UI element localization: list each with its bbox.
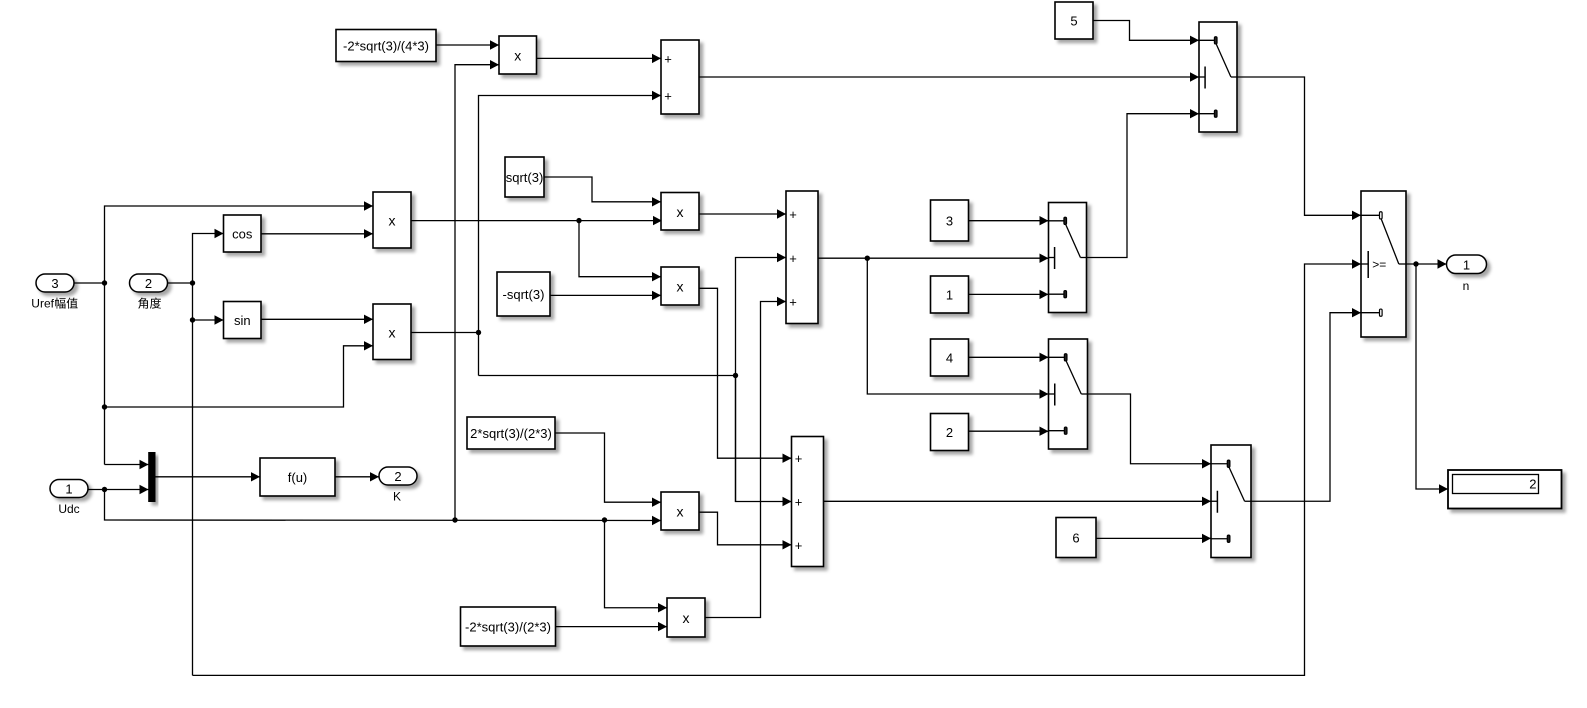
svg-text:+: + (789, 207, 797, 222)
svg-text:Udc: Udc (58, 502, 79, 516)
wire sum U10 output to switch U15 control (818, 254, 1049, 263)
svg-text:1: 1 (946, 288, 953, 303)
svg-text:2*sqrt(3)/(2*3): 2*sqrt(3)/(2*3) (470, 426, 552, 441)
product U8 (667, 598, 705, 637)
wire Udc branch down to product U8 input1 (605, 520, 668, 612)
constant C2 sqrt(3) (505, 157, 544, 197)
svg-text:5: 5 (1070, 14, 1077, 29)
svg-text:+: + (789, 251, 797, 266)
wire cos output to product U1 input2 (261, 229, 373, 238)
svg-text:+: + (795, 495, 803, 510)
product U3 (499, 36, 537, 74)
svg-text:x: x (683, 610, 690, 626)
svg-text:>=: >= (1372, 258, 1386, 272)
wire Uref branch to product U2 input2 (105, 341, 374, 407)
wire constant C2 sqrt3 to product U4 input1 (544, 177, 661, 207)
wire constant C9 value4 to switch U16 input1 (969, 353, 1049, 362)
input port 3 Uref (36, 274, 74, 292)
svg-text:2: 2 (1529, 477, 1536, 492)
input port 2 angle (130, 274, 168, 292)
constant C8 value 5 (1055, 2, 1093, 39)
wire angle bottom run to switch U13 control input (193, 259, 1362, 675)
wire branch to display U18 (1416, 264, 1448, 494)
wire B net across to junction (479, 375, 736, 377)
svg-text:3: 3 (946, 214, 953, 229)
display U18 (1448, 470, 1562, 509)
svg-text:+: + (664, 51, 672, 66)
svg-text:4: 4 (946, 351, 953, 366)
wire product U4 output to sum U10 input1 (699, 209, 786, 218)
wire constant C1 to product U3 input1 (436, 40, 499, 49)
node Udc junction C (452, 517, 457, 522)
constant C5 -2*sqrt(3)/(2*3) (461, 607, 556, 646)
svg-text:2: 2 (394, 469, 401, 484)
constant C6 value 3 (931, 200, 969, 241)
wire sin output to product U2 input1 (261, 315, 373, 324)
svg-text:f(u): f(u) (288, 470, 308, 485)
wire branch of U1 output to product U6 input1 (579, 221, 661, 282)
constant C1 -2*sqrt(3)/(4*3) (336, 30, 436, 62)
product U2 (373, 304, 411, 360)
wire switch U13 output to port n (1406, 259, 1447, 268)
wire sum U11 output to switch U17 control (824, 497, 1212, 506)
svg-text:3: 3 (51, 276, 58, 291)
svg-text:sqrt(3): sqrt(3) (506, 170, 544, 185)
wire mux output to Fcn U5 (155, 472, 260, 481)
wire product U2 output to junction (411, 332, 479, 334)
svg-text:Uref: Uref (31, 297, 54, 311)
svg-text:2: 2 (946, 425, 953, 440)
node sum U10 output junction (865, 256, 870, 261)
svg-text:x: x (389, 324, 396, 340)
wire product U7 output to sum U11 input3 (699, 512, 792, 549)
wire constant C4 to product U7 input1 (555, 433, 661, 507)
node Uref junction B (102, 404, 107, 409)
node B junction A (476, 330, 481, 335)
svg-text:-2*sqrt(3)/(4*3): -2*sqrt(3)/(4*3) (343, 39, 429, 54)
wire constant C7 value1 to switch U15 input3 (969, 290, 1049, 299)
wire sum U9 output to switch U14 input2 (699, 72, 1199, 81)
switch U13 final (1361, 191, 1406, 337)
wire constant C10 value2 to switch U16 input3 (969, 427, 1049, 436)
wire Udc branch run (105, 490, 662, 526)
label Uref幅值 (31, 297, 77, 311)
wire constant C11 value6 to switch U17 input3 (1096, 534, 1211, 543)
svg-text:K: K (393, 490, 401, 504)
product U7 (661, 492, 699, 530)
constant C9 value 4 (931, 339, 969, 376)
node U1 output junction (576, 218, 581, 223)
wire product U6 output to sum U11 input1 (699, 288, 792, 463)
wire Udc input to mux input2 (88, 485, 149, 494)
constant C10 value 2 (931, 414, 969, 451)
svg-text:cos: cos (232, 227, 253, 242)
wire angle net to cos input (193, 229, 224, 676)
output port 2 K (379, 467, 417, 504)
mux (148, 452, 155, 502)
node Uref junction A (102, 280, 107, 285)
output port 1 n (1447, 255, 1487, 293)
wire Udc branch up to product U3 input2 (455, 60, 499, 520)
wire Uref input to junction (74, 282, 105, 284)
svg-text:+: + (795, 451, 803, 466)
svg-text:x: x (677, 204, 684, 220)
svg-text:-sqrt(3): -sqrt(3) (503, 287, 545, 302)
wire switch U16 output to switch U17 input1 (1088, 394, 1212, 468)
sin block (224, 302, 262, 339)
wire switch U17 output to switch U13 input3 (1251, 308, 1361, 501)
node angle junction B (190, 317, 195, 322)
node B junction B (733, 373, 738, 378)
svg-text:x: x (677, 504, 684, 520)
Fcn block f(u) (260, 458, 335, 496)
constant C7 value 1 (931, 276, 969, 313)
sum U11 (792, 437, 824, 567)
svg-text:-2*sqrt(3)/(2*3): -2*sqrt(3)/(2*3) (465, 620, 551, 635)
cos block (224, 215, 262, 252)
wire Fcn U5 output to port K (335, 472, 379, 481)
constant C11 value 6 (1056, 518, 1096, 558)
constant C3 -sqrt(3) (497, 272, 550, 316)
input port 1 Udc (50, 480, 88, 517)
wire Uref branch to mux input1 (105, 460, 149, 469)
svg-text:2: 2 (145, 276, 152, 291)
node Udc junction D (602, 517, 607, 522)
svg-text:x: x (677, 279, 684, 295)
switch U17 (1211, 445, 1251, 558)
product U1 (373, 192, 411, 248)
svg-text:sin: sin (234, 313, 251, 328)
svg-text:x: x (514, 48, 521, 64)
wire switch U15 output to switch U14 input3 (1087, 109, 1200, 258)
svg-text:+: + (789, 295, 797, 310)
wire B net up to sum U10 input2 (736, 253, 787, 502)
svg-text:1: 1 (65, 482, 72, 497)
wire product U8 output to sum U10 input3 (705, 297, 786, 618)
wire angle input to junction (168, 282, 193, 284)
wire constant C5 to product U8 input2 (556, 622, 668, 631)
wire constant C8 value5 to switch U14 input1 (1093, 21, 1199, 46)
product U6 (661, 267, 699, 305)
node output junction (1413, 261, 1418, 266)
node angle junction A (190, 280, 195, 285)
wire angle branch to sin input (193, 315, 224, 324)
svg-text:+: + (664, 89, 672, 104)
product U4 (661, 193, 699, 231)
svg-text:n: n (1463, 279, 1470, 293)
switch U14 (1199, 22, 1237, 132)
svg-text:x: x (389, 213, 396, 229)
wire switch U14 output to switch U13 input1 (1237, 77, 1361, 220)
wire B net up to sum U9 input2 (479, 91, 662, 376)
sum U10 (786, 191, 818, 324)
svg-text:6: 6 (1072, 531, 1079, 546)
svg-text:+: + (795, 538, 803, 553)
wire Uref net vertical with branch to product U1 input1 (105, 201, 374, 464)
wire sum U10 branch to switch U16 control (867, 258, 1048, 399)
switch U16 (1049, 339, 1088, 449)
wire product U1 output to product U4 input2 (411, 216, 662, 225)
switch U15 (1049, 203, 1087, 313)
sum U9 (661, 40, 699, 114)
constant C4 2*sqrt(3)/(2*3) (467, 417, 555, 449)
wire constant C3 minus sqrt3 to product U6 input2 (550, 291, 661, 300)
wire B net down to sum U11 input2 (736, 376, 792, 507)
label 角度 (138, 298, 161, 309)
node Udc junction (102, 487, 107, 492)
svg-text:1: 1 (1463, 257, 1470, 272)
wire constant C6 value3 to switch U15 input1 (969, 216, 1049, 225)
wire product U3 output to sum U9 input1 (537, 54, 662, 63)
